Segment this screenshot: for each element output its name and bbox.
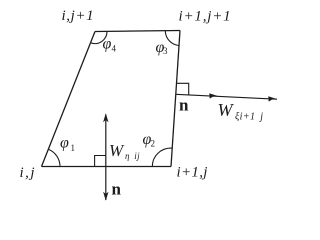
vertical normal arrow shaft (105, 115, 107, 201)
vertical arrowhead down (103, 192, 108, 201)
svg-text:φ: φ (103, 36, 112, 53)
label W_xi_i+1_j (218, 100, 264, 123)
svg-text:η ij: η ij (125, 151, 140, 161)
svg-text:i,j: i,j (20, 165, 37, 181)
svg-text:1: 1 (71, 143, 76, 153)
right-angle marker at right edge (177, 83, 189, 94)
svg-text:n: n (179, 96, 189, 115)
edge right (i+1,j)-(i+1,j+1) (171, 31, 180, 167)
svg-text:3: 3 (163, 46, 168, 56)
svg-text:ξi+1 j: ξi+1 j (235, 112, 263, 123)
svg-text:W: W (109, 141, 125, 160)
angle label phi2 (143, 131, 156, 149)
angle arc phi4 (91, 31, 107, 43)
svg-text:i,j+1: i,j+1 (62, 8, 95, 24)
svg-text:n: n (112, 180, 122, 199)
svg-text:i+1,j: i+1,j (177, 165, 208, 181)
angle label phi4 (103, 36, 117, 54)
angle arc phi3 (165, 31, 179, 46)
svg-text:i+1,j+1: i+1,j+1 (179, 9, 232, 25)
svg-text:φ: φ (60, 135, 69, 152)
svg-text:4: 4 (112, 44, 117, 54)
angle arc phi1 (48, 149, 60, 166)
right-angle marker at bottom edge (95, 156, 106, 167)
vertical arrowhead up (103, 113, 108, 122)
edge bottom (i,j)-(i+1,j) (42, 166, 172, 168)
svg-text:W: W (218, 100, 235, 120)
label W_eta_ij (109, 141, 140, 161)
edge left (i,j+1)-(i,j) (42, 32, 96, 167)
svg-text:2: 2 (151, 139, 156, 149)
horizontal arrowhead end (268, 96, 277, 101)
angle arc phi2 (152, 148, 172, 166)
angle label phi3 (156, 39, 169, 56)
horizontal arrowhead mid (209, 93, 218, 98)
angle label phi1 (60, 135, 75, 154)
horizontal normal arrow shaft (175, 94, 277, 99)
edge top (i+1,j+1)-(i,j+1) (95, 31, 180, 32)
